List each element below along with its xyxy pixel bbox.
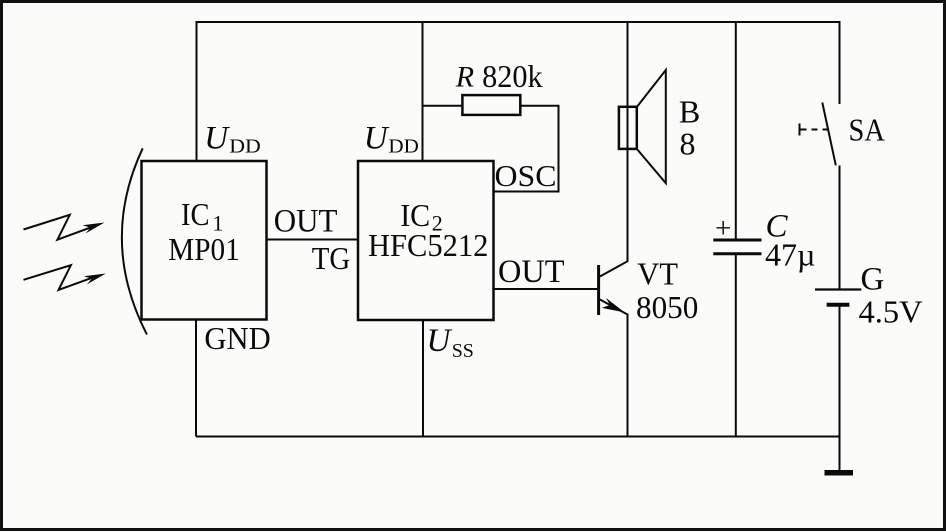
wire IC2 UDD bbox=[422, 21, 424, 161]
label IC1 bbox=[181, 196, 223, 236]
wire emitter branch bbox=[627, 314, 629, 437]
op IC1 box bbox=[142, 161, 267, 320]
svg-text:GND: GND bbox=[204, 320, 270, 356]
svg-text:G: G bbox=[861, 262, 885, 298]
capacitor C bottom plate bbox=[713, 252, 761, 255]
svg-text:DD: DD bbox=[229, 136, 260, 158]
wire battery to ground bbox=[839, 306, 841, 472]
capacitor C top plate bbox=[713, 239, 761, 242]
svg-text:TG: TG bbox=[312, 240, 351, 276]
svg-text:47µ: 47µ bbox=[765, 237, 816, 273]
svg-text:MP01: MP01 bbox=[168, 231, 239, 267]
op IC2 box bbox=[358, 161, 494, 320]
transistor VT base bar bbox=[597, 265, 600, 315]
svg-text:OUT: OUT bbox=[274, 203, 338, 239]
wire switch to battery bbox=[839, 166, 841, 290]
label IC2 bbox=[400, 197, 443, 236]
svg-text:U: U bbox=[364, 120, 390, 156]
transistor collector diagonal bbox=[600, 261, 628, 277]
wire switch upper bbox=[839, 21, 841, 104]
svg-text:DD: DD bbox=[388, 136, 419, 158]
speaker B frame bbox=[619, 107, 637, 149]
svg-text:HFC5212: HFC5212 bbox=[368, 227, 488, 263]
IR arrow 2 bbox=[24, 265, 106, 290]
wire speaker collector branch bbox=[627, 21, 629, 261]
svg-text:OSC: OSC bbox=[495, 158, 557, 193]
label U_DD of IC1 bbox=[204, 120, 261, 157]
transistor emitter arrow head bbox=[602, 298, 625, 313]
wire OUT to TG bbox=[267, 239, 359, 241]
battery G short plate bbox=[827, 303, 850, 307]
ground bar bbox=[825, 470, 854, 476]
svg-text:SS: SS bbox=[452, 340, 474, 362]
wire IC2 USS bbox=[422, 320, 424, 437]
label R 820k bbox=[455, 58, 543, 94]
battery G long plate bbox=[815, 288, 861, 290]
svg-text:R: R bbox=[455, 61, 474, 94]
svg-text:+: + bbox=[715, 213, 731, 245]
wire IC1 GND bbox=[195, 320, 197, 437]
wire bottom bus bbox=[196, 436, 840, 438]
wire capacitor upper bbox=[735, 21, 737, 239]
label U_SS of IC2 bbox=[427, 323, 474, 362]
speaker horn bbox=[637, 70, 666, 183]
svg-text:SA: SA bbox=[849, 111, 885, 147]
wire capacitor lower bbox=[735, 254, 737, 437]
svg-text:VT: VT bbox=[637, 256, 678, 292]
svg-text:820k: 820k bbox=[482, 58, 542, 94]
svg-text:IC: IC bbox=[181, 196, 210, 232]
svg-text:8050: 8050 bbox=[636, 289, 698, 325]
label U_DD of IC2 bbox=[364, 120, 419, 157]
switch SA actuator tick bbox=[799, 124, 801, 136]
wire top bus bbox=[197, 21, 840, 23]
transistor emitter diagonal bbox=[600, 300, 628, 315]
wire IC1 UDD bbox=[196, 21, 198, 161]
svg-text:U: U bbox=[427, 323, 453, 359]
lens arc of IC1 bbox=[122, 148, 147, 334]
switch SA blade bbox=[822, 103, 836, 166]
svg-text:8: 8 bbox=[680, 126, 696, 162]
svg-text:B: B bbox=[679, 94, 700, 130]
svg-text:4.5V: 4.5V bbox=[859, 294, 923, 330]
switch SA actuator dashes bbox=[801, 129, 830, 131]
wire resistor right bbox=[494, 106, 559, 192]
wire OUT IC2 to base bbox=[494, 288, 599, 290]
svg-text:OUT: OUT bbox=[498, 254, 565, 290]
IR arrow 1 bbox=[24, 215, 105, 240]
resistor R bbox=[462, 95, 520, 115]
wire resistor left bbox=[423, 105, 463, 107]
svg-text:U: U bbox=[204, 120, 230, 156]
